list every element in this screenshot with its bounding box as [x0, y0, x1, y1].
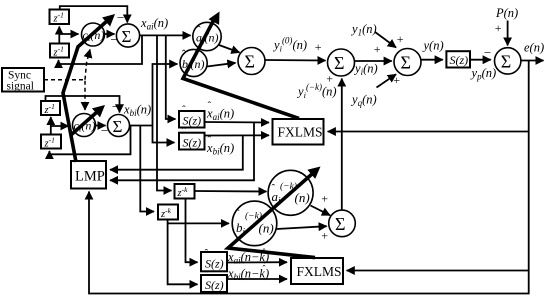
bold update arrow LMP to c1: [63, 14, 115, 162]
wire: sigma-y3 to S(z): [421, 59, 443, 61]
svg-text:Σ: Σ: [401, 53, 411, 73]
wire: sigma-y2 to sigma-y3: [355, 60, 392, 62]
svg-text:y(n): y(n): [422, 39, 444, 53]
wire: z^-k D1 to a-hat delayed: [195, 190, 267, 193]
wire: y_1 into sigma-y3: [375, 32, 396, 48]
svg-text:FXLMS: FXLMS: [278, 125, 323, 140]
node label x_ai(n): [140, 16, 168, 32]
minus sign (osc1 left input): [110, 32, 119, 47]
wire: B1 top feedback to sigma-osc2: [46, 96, 120, 112]
delay z^-1 B1 (oscillator 2): [41, 101, 60, 116]
svg-text:(n): (n): [259, 221, 274, 236]
node label y_i^(-k)(n): [296, 82, 337, 100]
svg-text:y1(n): y1(n): [350, 22, 377, 38]
plus sign (yq input): [393, 73, 401, 87]
svg-text:yp(n): yp(n): [470, 66, 497, 82]
frequency estimator box LMP: [71, 161, 106, 189]
node label x_ai(n-k-hat): [227, 247, 269, 266]
wire: S-hat3 output to FXLMS2: [227, 261, 287, 263]
wire: x_ai drop to S-hat 1: [166, 35, 176, 119]
svg-text:+: +: [326, 72, 334, 86]
svg-text:+: +: [373, 42, 381, 56]
wire: B2 to B1: [50, 117, 52, 135]
wire: z^-k D2 to b-hat delayed: [168, 220, 229, 224]
svg-text:yi(n): yi(n): [353, 62, 378, 78]
wire: tap to c1 input: [59, 33, 78, 35]
bold update arrow FXLMS1 to a/b filters: [183, 12, 299, 119]
svg-text:ˆ: ˆ: [182, 104, 186, 116]
plus sign (P input): [494, 21, 502, 35]
svg-text:+: +: [321, 229, 329, 243]
wire: x-hat_ai tap to LMP input 2: [110, 122, 254, 180]
svg-text:ˆ: ˆ: [182, 126, 186, 138]
node label x_bi(n-k-hat): [227, 264, 269, 283]
svg-text:xbi(n): xbi(n): [123, 103, 151, 119]
filter circle a-hat_i(n): [193, 22, 221, 50]
svg-text:ˆ: ˆ: [208, 100, 212, 112]
wire: osc1 loop back to A2: [59, 35, 143, 64]
node label y_p(n): [470, 66, 497, 82]
wire: b-hat to sigma-y1: [207, 63, 236, 67]
secondary path estimate box S-hat 3: [201, 248, 227, 272]
node label y_q(n): [350, 93, 377, 109]
svg-text:Σ: Σ: [122, 27, 132, 46]
dashed wire: sync to c1: [85, 50, 90, 80]
wire: x-hat_bi tap to LMP input 1: [110, 136, 243, 170]
secondary path estimate box S-hat 4: [201, 270, 227, 293]
svg-text:ˆ: ˆ: [236, 208, 240, 220]
wire: S(z) to sigma-e: [470, 59, 491, 61]
wire: tap to c2 input: [51, 125, 69, 127]
adder sigma bottom: [329, 210, 356, 237]
node label x_bi(n): [123, 103, 151, 119]
wire: z^-k D2 drop to S-hat 4: [168, 223, 198, 284]
svg-text:e(n): e(n): [524, 41, 544, 55]
wire: S-hat4 output to FXLMS2: [227, 278, 287, 280]
svg-text:Σ: Σ: [334, 53, 344, 73]
svg-text:ˆ: ˆ: [272, 183, 276, 195]
secondary path box S(z): [446, 51, 470, 67]
svg-text:+: +: [314, 40, 322, 54]
svg-text:+: +: [393, 73, 401, 87]
wire: x_ai drop to z^-k D1: [157, 35, 172, 190]
svg-text:yq(n): yq(n): [350, 93, 377, 109]
wire: e(n) output: [521, 60, 544, 62]
adder sigma y2: [328, 49, 355, 76]
wire: S-hat2 output to FXLMS1: [205, 134, 270, 136]
node label e(n): [524, 41, 544, 55]
wire: e(n) feedback to FXLMS1: [328, 131, 529, 133]
wire: x_bi(n) output segment: [130, 125, 153, 127]
bold update arrow branch to c2: [71, 105, 105, 135]
delay z^-1 A1 (oscillator 1): [50, 10, 70, 25]
wire: x_bi drop to S-hat 2: [153, 126, 175, 143]
wire: A2 to A1: [58, 27, 60, 44]
wire: e(n) feedback main drop: [89, 61, 529, 294]
wire: x_ai(n) main line to a-hat filter: [140, 34, 191, 36]
svg-text:Σ: Σ: [335, 214, 345, 234]
node label y_i^(0)(n): [272, 36, 307, 54]
plus sign (sigma-y3 left): [373, 42, 381, 56]
node label x-hat_ai(n): [206, 100, 234, 122]
svg-text:−: −: [111, 99, 120, 114]
wire: P(n) into sigma-e: [507, 21, 509, 46]
wire: a-hat to sigma-y1: [219, 45, 240, 53]
wire: c1 to sigma-osc1: [105, 33, 115, 35]
adder sigma osc2: [108, 115, 130, 137]
svg-text:Σ: Σ: [501, 52, 511, 72]
adder sigma osc1: [116, 24, 139, 47]
filter circle b-hat_i^(-k)(n) delayed: [232, 201, 277, 246]
plus sign (sigma-bottom lower input): [321, 229, 329, 243]
svg-text:Σ: Σ: [113, 117, 123, 136]
svg-text:ˆ: ˆ: [182, 47, 186, 61]
minus sign (sigma-e left input): [483, 45, 492, 60]
minus sign (osc2 left input): [100, 123, 109, 138]
delay z^-1 A2 (oscillator 1): [50, 44, 69, 59]
secondary path estimate box S-hat 2: [179, 126, 205, 150]
svg-text:S(z): S(z): [450, 53, 469, 67]
svg-text:+: +: [396, 32, 404, 46]
wire: sigma-bottom up to sigma-y2: [341, 79, 343, 210]
delay z^-1 B2 (oscillator 2): [41, 135, 61, 150]
adder sigma y3: [394, 49, 421, 76]
svg-text:ˆ: ˆ: [205, 248, 209, 260]
minus sign (osc2 top input): [111, 99, 120, 114]
svg-text:(n): (n): [295, 190, 310, 205]
Sync signal box: [2, 68, 44, 93]
svg-text:Σ: Σ: [245, 52, 255, 72]
filter circle a-hat_i^(-k)(n) delayed: [268, 170, 313, 215]
wire: sigma-y1 to sigma-y2: [265, 59, 326, 62]
svg-text:P(n): P(n): [495, 6, 518, 20]
node label y(n): [422, 39, 444, 53]
svg-text:−: −: [116, 10, 125, 25]
dashed wire: sync to c2: [44, 80, 85, 110]
delay box z^-k D1: [175, 183, 195, 200]
plus sign (sigma-y2 bottom input): [326, 72, 334, 86]
wire: a-hat delayed to sigma-bottom: [311, 206, 331, 216]
wire: x_bi drop to z^-k D2: [140, 126, 154, 212]
adaptive algorithm box FXLMS 1: [273, 119, 324, 145]
bold update arrow FXLMS2 to delayed filters: [228, 167, 321, 258]
plus sign (sigma-bottom upper input): [321, 192, 329, 206]
delay box z^-k D2: [158, 204, 178, 221]
svg-text:ˆ: ˆ: [205, 270, 209, 282]
node label P(n): [495, 6, 518, 20]
svg-text:xai(n): xai(n): [140, 16, 168, 32]
wire: c2 to sigma-osc2: [96, 125, 106, 127]
svg-text:LMP: LMP: [75, 169, 105, 185]
adder sigma y1: [238, 48, 265, 75]
coefficient circle c_i(n) #2: [73, 114, 96, 137]
svg-text:signal: signal: [7, 81, 34, 93]
wire: e(n) feedback to FXLMS2: [347, 270, 529, 272]
adder sigma e: [495, 48, 521, 74]
secondary path estimate box S-hat 1: [179, 104, 205, 128]
svg-text:−: −: [483, 45, 492, 60]
svg-text:ˆ: ˆ: [263, 264, 266, 274]
wire: x_bi riser to b-hat filter: [153, 64, 178, 126]
plus sign (y1 input): [396, 32, 404, 46]
wire: osc2 loop back to B2: [49, 126, 130, 155]
svg-text:+: +: [494, 21, 502, 35]
filter circle b-hat_i(n): [180, 47, 207, 77]
node label x-hat_bi(n): [206, 135, 234, 157]
svg-text:FXLMS: FXLMS: [297, 264, 342, 279]
wire: A1 top feedback to sigma-osc1: [60, 6, 128, 22]
svg-text:ˆ: ˆ: [197, 23, 201, 37]
coefficient circle c_i(n) #1: [82, 23, 105, 46]
node label y_i(n): [353, 62, 378, 78]
adaptive algorithm box FXLMS 2: [291, 258, 343, 284]
node label y_1(n): [350, 22, 377, 38]
wire: y_q into sigma-y3: [377, 74, 397, 87]
svg-text:+: +: [321, 192, 329, 206]
wire: S-hat1 output to FXLMS1: [205, 121, 270, 124]
wire: b-hat delayed to sigma-bottom: [277, 226, 327, 229]
plus sign (sigma-y2 left): [314, 40, 322, 54]
wire: z^-k D1 drop to S-hat 3: [186, 199, 198, 263]
minus sign (osc1 top input): [116, 10, 125, 25]
